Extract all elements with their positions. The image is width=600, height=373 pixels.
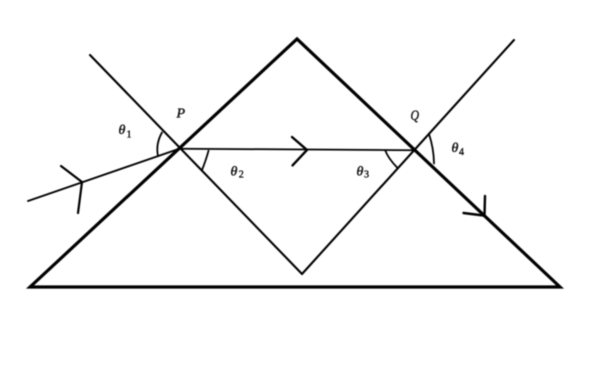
svg-text:θ: θ: [231, 164, 238, 179]
svg-text:3: 3: [364, 170, 369, 181]
svg-text:2: 2: [239, 170, 244, 181]
svg-text:Q: Q: [411, 108, 420, 124]
svg-text:θ: θ: [357, 164, 364, 179]
svg-text:4: 4: [459, 147, 464, 158]
svg-text:1: 1: [127, 130, 132, 141]
svg-text:θ: θ: [119, 123, 126, 138]
svg-text:θ: θ: [452, 141, 459, 156]
svg-text:P: P: [176, 107, 186, 122]
